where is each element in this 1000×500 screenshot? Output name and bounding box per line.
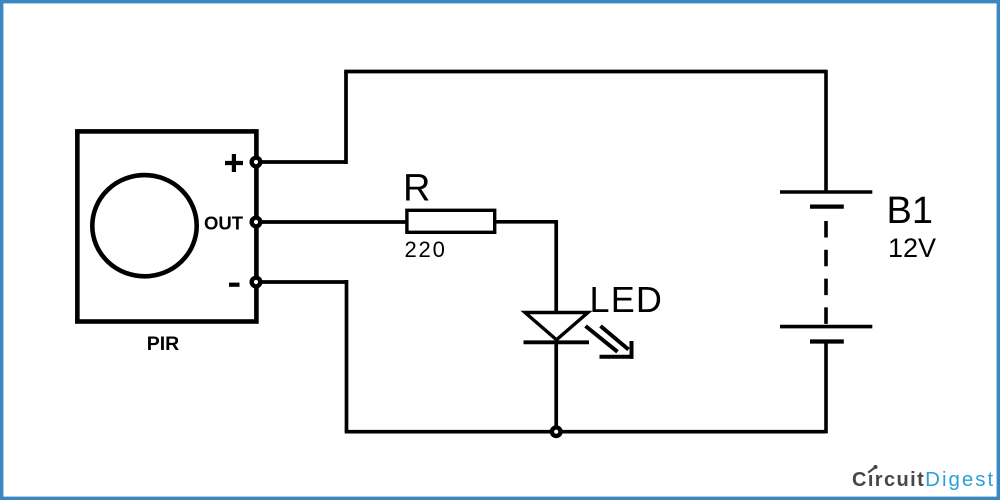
wire: LED cathode down to bottom rail: [554, 342, 558, 432]
svg-text:12V: 12V: [888, 233, 936, 263]
battery B1 top cell long plate: [780, 190, 872, 194]
LED triangle (anode): [525, 313, 588, 340]
PIR lens circle: [92, 175, 196, 276]
svg-text:B1: B1: [887, 190, 933, 232]
svg-text:220: 220: [405, 237, 447, 262]
svg-text:PIR: PIR: [147, 333, 180, 355]
svg-text:R: R: [403, 168, 430, 210]
wire: riser up from + terminal: [344, 72, 348, 165]
LED light emission arrow shaft 1: [586, 326, 618, 352]
PIR sensor body: [77, 131, 256, 321]
wire: PIR OUT to resistor: [256, 220, 406, 224]
wire: PIR - terminal to lower riser: [256, 280, 347, 284]
LED cathode bar: [524, 340, 590, 344]
wire: down to LED anode: [554, 220, 558, 312]
resistor R1 body: [407, 210, 495, 232]
node: PIR + terminal: [252, 158, 261, 167]
wire: riser down from - terminal: [345, 280, 349, 432]
battery B1 bottom cell long plate: [780, 325, 872, 329]
battery B1 intermediate cells dashed link: [824, 221, 828, 325]
svg-text:LED: LED: [590, 279, 664, 320]
minus terminal label: [229, 283, 240, 287]
node: PIR OUT terminal: [252, 218, 261, 227]
wire: resistor to LED branch: [495, 220, 556, 224]
LED arrow head vertical barb: [630, 341, 634, 359]
CircuitDigest logo i accent dot: [873, 465, 877, 469]
wire: bottom rail: [345, 430, 826, 434]
battery B1 bottom cell short plate: [810, 339, 844, 343]
battery B1 top cell short plate: [810, 205, 844, 209]
wire: top rail down to battery +: [824, 70, 828, 191]
LED light emission arrow shaft 2: [601, 326, 629, 350]
node: PIR - terminal: [252, 278, 261, 287]
svg-text:OUT: OUT: [204, 213, 244, 234]
plus terminal label: [225, 154, 243, 172]
CircuitDigest logo i accent needle: [868, 468, 874, 473]
wire: top rail: [344, 70, 826, 74]
wire: PIR + terminal to top rail riser: [256, 160, 346, 164]
wire: battery - down to bottom rail: [824, 342, 828, 434]
LED arrow head horizontal barb: [600, 355, 634, 359]
svg-text:CırcuitDigest: CırcuitDigest: [852, 468, 995, 491]
node: LED cathode junction on bottom rail: [552, 427, 561, 436]
